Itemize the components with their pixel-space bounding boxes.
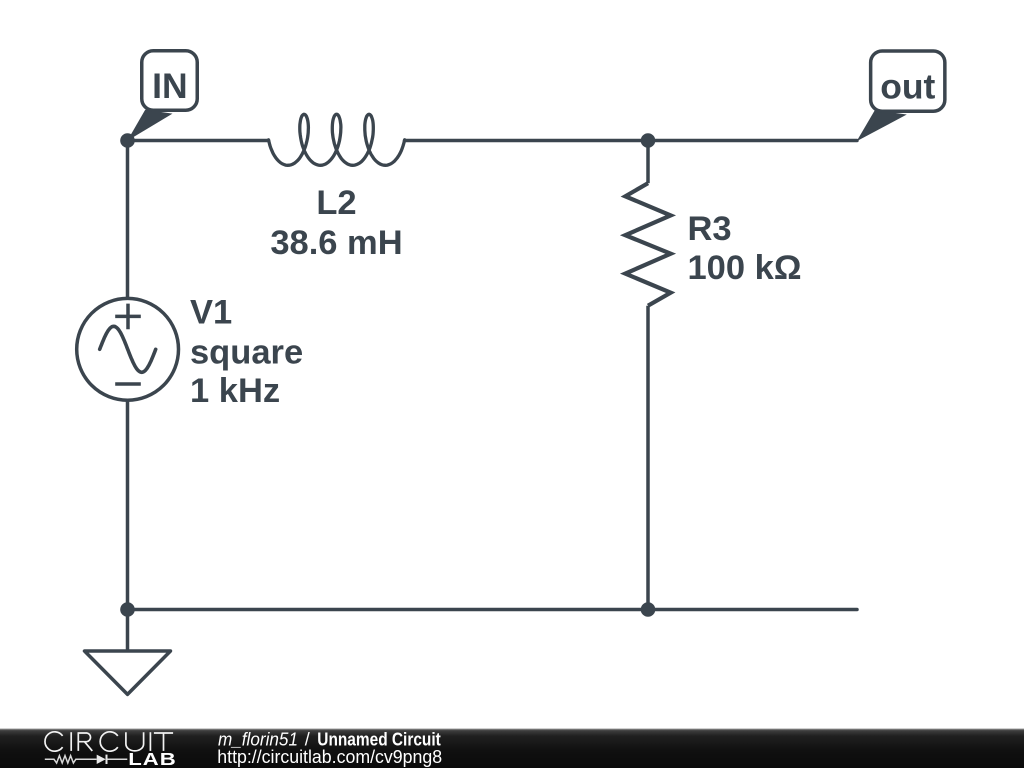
logo letter I2 xyxy=(149,732,151,751)
svg-text:square: square xyxy=(190,334,303,372)
node dot bottom left xyxy=(120,602,135,617)
wire left vertical below V1 xyxy=(126,400,130,609)
wire left vertical above V1 xyxy=(126,141,130,299)
logo letter I xyxy=(70,732,72,751)
V1 plus sign xyxy=(115,304,141,330)
V1 minus sign xyxy=(115,382,141,386)
flag IN tail xyxy=(127,110,172,141)
svg-text:http://circuitlab.com/cv9png8: http://circuitlab.com/cv9png8 xyxy=(217,747,442,767)
wire ground stub xyxy=(126,610,130,652)
wire bottom xyxy=(128,608,858,612)
svg-text:L2: L2 xyxy=(316,184,356,222)
logo letter C xyxy=(45,732,63,751)
footer bar xyxy=(0,729,1024,768)
svg-text:100 kΩ: 100 kΩ xyxy=(688,249,802,287)
logo squiggle diode bar xyxy=(106,755,108,764)
logo squiggle resistor xyxy=(45,756,97,763)
flag IN box xyxy=(142,51,198,111)
svg-text:out: out xyxy=(880,67,935,107)
logo letter T xyxy=(154,733,173,751)
node dot bottom R3 xyxy=(641,602,656,617)
ground symbol xyxy=(85,651,171,694)
flag out tail xyxy=(857,110,907,141)
logo letter C2 xyxy=(100,732,118,751)
flag out box xyxy=(871,51,945,111)
svg-text:38.6 mH: 38.6 mH xyxy=(270,224,402,262)
inductor L2 coil xyxy=(269,114,405,165)
logo letter R xyxy=(78,732,92,751)
svg-text:R3: R3 xyxy=(688,210,732,248)
node dot top R3 xyxy=(641,133,656,148)
resistor R3 top lead xyxy=(646,141,650,184)
logo squiggle diode xyxy=(97,755,106,764)
wire top from node IN to out flag xyxy=(128,139,269,143)
resistor R3 zigzag xyxy=(625,183,670,306)
svg-text:LAB: LAB xyxy=(128,750,176,768)
svg-text:1 kHz: 1 kHz xyxy=(190,372,280,410)
wire top right of inductor xyxy=(405,139,857,143)
svg-text:V1: V1 xyxy=(190,294,232,332)
node dot IN xyxy=(120,133,135,148)
voltage source V1 circle xyxy=(77,298,179,400)
svg-text:IN: IN xyxy=(152,66,188,106)
logo letter U xyxy=(126,732,144,751)
V1 sine wave xyxy=(100,326,156,372)
logo squiggle wire to LAB xyxy=(107,758,128,760)
resistor R3 bottom lead xyxy=(646,306,650,610)
